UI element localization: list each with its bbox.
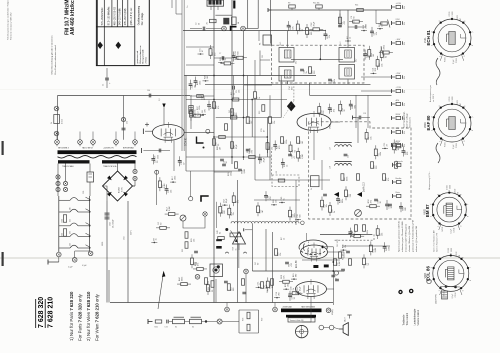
svg-text:1k: 1k (349, 37, 351, 39)
svg-text:LAUTSPR.: LAUTSPR. (435, 293, 438, 304)
svg-text:460–150 V 50–53: 460–150 V 50–53 (114, 6, 116, 25)
svg-text:S2: S2 (192, 327, 194, 329)
svg-text:R/102: R/102 (457, 100, 459, 105)
svg-text:220k: 220k (346, 177, 348, 181)
svg-text:10k: 10k (376, 32, 378, 35)
svg-text:R31: R31 (182, 249, 184, 252)
svg-text:R47 2M: R47 2M (343, 253, 345, 260)
svg-text:100k: 100k (388, 246, 390, 250)
svg-text:Bandbr.: Bandbr. (396, 178, 403, 180)
svg-text:10k: 10k (382, 64, 384, 67)
svg-text:8: 8 (472, 45, 474, 46)
svg-text:Werte in Klammern: FM: Werte in Klammern: FM (436, 233, 439, 252)
svg-text:Tone control: Tone control (406, 312, 409, 325)
svg-text:1: 1 (438, 226, 440, 227)
svg-text:TRAFO/CHAS: TRAFO/CHAS (62, 165, 74, 168)
svg-text:R14: R14 (355, 5, 358, 7)
svg-text:R/105: R/105 (445, 142, 447, 147)
svg-text:V828: V828 (330, 123, 332, 129)
svg-text:6: 6 (465, 21, 467, 22)
svg-text:TAST/GES/CHAS: TAST/GES/CHAS (301, 305, 316, 308)
svg-text:47k: 47k (197, 263, 199, 266)
svg-text:15k: 15k (280, 253, 282, 256)
svg-text:5: 5 (452, 17, 454, 18)
svg-text:ECL 86: ECL 86 (296, 260, 298, 268)
svg-text:47k: 47k (283, 276, 285, 279)
svg-text:C43: C43 (336, 278, 338, 281)
svg-text:C21: C21 (348, 155, 350, 158)
svg-text:2,2: 2,2 (159, 99, 161, 102)
svg-text:NETZ/GEB 3: NETZ/GEB 3 (58, 148, 69, 150)
svg-text:100k: 100k (175, 176, 177, 180)
svg-text:0,9–9: 0,9–9 (198, 112, 200, 117)
svg-text:4: 4 (439, 21, 441, 22)
svg-text:R13: R13 (259, 111, 261, 114)
svg-text:7: 7 (472, 117, 474, 118)
svg-text:8: 8 (470, 280, 472, 281)
svg-text:125: 125 (70, 219, 72, 222)
svg-text:C/100: C/100 (446, 185, 448, 190)
svg-text:10k: 10k (404, 90, 406, 93)
svg-text:C/100: C/100 (448, 248, 450, 253)
svg-text:15k: 15k (345, 245, 347, 248)
svg-text:Normspannungs-: Normspannungs- (403, 111, 406, 128)
svg-text:5k: 5k (225, 58, 227, 60)
svg-text:2: 2 (431, 130, 433, 131)
svg-text:8: 8 (472, 130, 474, 131)
svg-text:100k: 100k (199, 106, 201, 110)
svg-text:C64: C64 (110, 223, 112, 226)
svg-text:1k: 1k (156, 238, 158, 240)
svg-text:100k: 100k (199, 81, 201, 85)
svg-text:2,2M: 2,2M (375, 248, 377, 253)
svg-text:1: 1 (439, 141, 441, 142)
svg-text:1M: 1M (302, 141, 304, 144)
svg-text:5k: 5k (311, 188, 313, 190)
svg-text:235–162 V (FM): 235–162 V (FM) (125, 8, 127, 25)
svg-text:Volume control: Volume control (417, 310, 420, 326)
svg-text:Schaltungsänderungen vorbehalt: Schaltungsänderungen vorbehalten! Subjec… (7, 0, 10, 40)
svg-text:10k: 10k (404, 6, 406, 9)
svg-text:160: 160 (70, 231, 72, 234)
svg-text:Ratio: Ratio (396, 191, 400, 194)
svg-text:1k: 1k (355, 231, 357, 233)
svg-text:2,2M: 2,2M (339, 261, 341, 266)
svg-text:R79: R79 (262, 318, 264, 321)
svg-text:For Wien 7 628 210 only: For Wien 7 628 210 only (95, 293, 100, 341)
svg-text:9: 9 (464, 141, 466, 142)
svg-text:V828: V828 (424, 122, 427, 128)
svg-text:C18: C18 (363, 113, 366, 115)
svg-text:C63: C63 (124, 237, 126, 240)
svg-text:R36: R36 (233, 247, 235, 250)
svg-text:Tonblende: Tonblende (404, 314, 406, 325)
svg-text:1M: 1M (398, 147, 400, 150)
svg-text:243–107 V (AM): 243–107 V (AM) (119, 8, 122, 25)
svg-text:9: 9 (464, 56, 466, 57)
svg-text:5k: 5k (219, 232, 221, 234)
svg-text:measured with VTVM against: measured with VTVM against (405, 224, 408, 252)
svg-text:1k: 1k (259, 97, 261, 99)
svg-text:10k: 10k (371, 137, 373, 140)
svg-text:ECH 81: ECH 81 (185, 137, 188, 146)
svg-text:3: 3 (431, 32, 433, 33)
svg-text:10k: 10k (404, 76, 406, 79)
svg-text:Osc. voltage: Osc. voltage (141, 12, 144, 25)
svg-text:30: 30 (199, 23, 201, 25)
svg-text:Spannungen gemessen mit Röhr.: Spannungen gemessen mit Röhr. (398, 220, 401, 252)
svg-text:2,2M: 2,2M (244, 169, 246, 174)
svg-text:1k: 1k (283, 238, 285, 240)
svg-text:10,7: 10,7 (356, 59, 358, 62)
svg-text:4: 4 (439, 106, 441, 107)
svg-text:C8: C8 (155, 156, 157, 158)
svg-text:7: 7 (470, 267, 472, 268)
svg-text:voltmeter gegen Chassis 10 MΩ: voltmeter gegen Chassis 10 MΩ (401, 221, 404, 252)
svg-text:10k: 10k (404, 103, 406, 106)
svg-text:100k: 100k (380, 152, 382, 156)
svg-text:220k: 220k (181, 277, 183, 281)
svg-text:10k: 10k (382, 233, 384, 236)
svg-text:25μF: 25μF (264, 157, 266, 162)
svg-text:3: 3 (431, 204, 433, 205)
svg-text:6: 6 (463, 257, 465, 258)
svg-text:R11 30k: R11 30k (313, 3, 320, 5)
svg-text:R/102: R/102 (457, 15, 459, 20)
svg-text:270 kΩ: 270 kΩ (145, 56, 147, 63)
svg-text:0,5 A: 0,5 A (61, 119, 64, 124)
svg-text:TAST./ NETZ: TAST./ NETZ (82, 147, 94, 150)
svg-text:S1: S1 (175, 327, 177, 329)
svg-text:L4: L4 (238, 22, 240, 24)
svg-text:C61: C61 (83, 191, 85, 194)
svg-text:2,2M: 2,2M (169, 206, 171, 211)
svg-text:1500: 1500 (62, 233, 64, 237)
svg-text:L17: L17 (330, 147, 332, 150)
svg-text:10k: 10k (230, 173, 232, 176)
svg-text:FM 10,7 MHz/Mc: FM 10,7 MHz/Mc (65, 0, 71, 35)
svg-text:9: 9 (460, 226, 462, 227)
svg-text:5k: 5k (306, 71, 308, 73)
svg-text:LS(M): LS(M) (332, 309, 334, 315)
svg-text:AM 460 kHz/kc: AM 460 kHz/kc (70, 0, 76, 35)
svg-text:−0,5V: −0,5V (396, 3, 402, 5)
svg-text:C 75: C 75 (122, 187, 124, 192)
svg-text:87,5–100 MHz/Mc: 87,5–100 MHz/Mc (108, 6, 110, 25)
svg-text:5000: 5000 (452, 12, 454, 16)
svg-text:10k: 10k (404, 22, 406, 25)
svg-text:25μF: 25μF (299, 286, 301, 291)
svg-text:47k: 47k (292, 26, 294, 29)
svg-text:R/102: R/102 (454, 189, 456, 194)
svg-text:Printed in Germany VDR 4/62: Printed in Germany VDR 4/62 (10, 12, 13, 40)
svg-text:150k: 150k (367, 230, 369, 234)
svg-text:2,2M: 2,2M (164, 183, 166, 188)
svg-text:2: 2 (431, 280, 433, 281)
svg-text:4: 4 (438, 194, 440, 195)
svg-text:R41: R41 (155, 327, 158, 329)
svg-text:For Paris 7 628 320 only: For Paris 7 628 320 only (78, 293, 83, 341)
svg-text:C/104: C/104 (455, 293, 457, 298)
svg-text:25μF: 25μF (226, 198, 228, 203)
svg-text:2,2M: 2,2M (302, 154, 304, 159)
svg-text:5000: 5000 (102, 242, 104, 246)
svg-text:8: 8 (468, 216, 470, 217)
svg-text:V101: V101 (424, 37, 427, 43)
svg-text:−25V: −25V (396, 73, 401, 75)
svg-text:20/GES-AB: 20/GES-AB (283, 305, 293, 308)
svg-text:C2: C2 (196, 23, 198, 25)
svg-text:2: 2 (431, 45, 433, 46)
svg-text:25μF: 25μF (236, 144, 238, 149)
svg-text:Lautstärkeregler: Lautstärkeregler (414, 308, 417, 325)
svg-text:1M: 1M (373, 54, 375, 57)
svg-text:1: 1 (439, 56, 441, 57)
svg-text:10k: 10k (288, 284, 290, 287)
svg-text:9: 9 (462, 290, 464, 291)
svg-text:220k: 220k (334, 79, 336, 83)
svg-text:L21: L21 (276, 171, 278, 174)
svg-text:values in ( ) for position FM: values in ( ) for position FM (415, 226, 418, 252)
svg-text:1500: 1500 (62, 219, 64, 223)
svg-text:Messpunkt with: Messpunkt with (142, 49, 145, 63)
svg-text:15k: 15k (252, 121, 254, 124)
svg-text:−2,5V: −2,5V (396, 87, 402, 89)
svg-text:C/100: C/100 (449, 97, 451, 102)
svg-text:15k: 15k (233, 212, 235, 215)
svg-text:5: 5 (449, 190, 451, 191)
svg-text:10k: 10k (193, 239, 195, 242)
svg-text:gemessen mit: gemessen mit (136, 50, 139, 63)
svg-text:10k: 10k (404, 42, 406, 45)
svg-text:3: 3 (431, 117, 433, 118)
svg-text:2xAA 113: 2xAA 113 (363, 182, 366, 192)
svg-text:ca. 250 V: ca. 250 V (433, 93, 435, 102)
svg-text:C15: C15 (262, 55, 264, 58)
svg-text:10k: 10k (326, 204, 328, 207)
svg-text:C/104: C/104 (456, 58, 458, 63)
svg-text:10k: 10k (404, 144, 406, 147)
svg-text:110: 110 (70, 207, 72, 210)
svg-text:5k: 5k (334, 211, 336, 213)
svg-text:220k: 220k (383, 45, 385, 49)
svg-text:1M: 1M (262, 210, 264, 213)
svg-text:5: 5 (451, 253, 453, 254)
svg-text:5k: 5k (293, 288, 295, 290)
svg-text:R9: R9 (288, 3, 290, 5)
svg-text:7 628 210: 7 628 210 (47, 297, 54, 328)
svg-text:100k: 100k (381, 22, 383, 26)
svg-text:350 V: 350 V (131, 229, 133, 235)
svg-text:50+300μF: 50+300μF (113, 219, 115, 228)
svg-text:7: 7 (468, 204, 470, 205)
svg-text:6: 6 (461, 194, 463, 195)
svg-text:B/H/GER/AB: B/H/GER/AB (123, 147, 134, 150)
svg-text:10k: 10k (238, 90, 240, 93)
svg-text:TRAFO/CH 50 A: TRAFO/CH 50 A (103, 165, 117, 168)
svg-text:R/102: R/102 (456, 252, 458, 257)
svg-text:47k: 47k (334, 109, 336, 112)
svg-text:B 250: B 250 (119, 187, 121, 193)
svg-text:1k: 1k (213, 107, 215, 109)
svg-text:1M: 1M (272, 285, 274, 288)
svg-text:V802: V802 (424, 208, 427, 214)
svg-text:C72: C72 (165, 327, 168, 329)
svg-text:C65: C65 (127, 121, 129, 124)
svg-text:Für: Für (187, 5, 189, 8)
svg-text:R/105: R/105 (443, 292, 445, 297)
svg-text:1M: 1M (207, 76, 209, 79)
svg-text:−10V: −10V (396, 39, 401, 41)
svg-text:1k: 1k (287, 165, 289, 167)
svg-text:5000: 5000 (451, 248, 453, 252)
svg-text:Röhrenvoltmeter an: Röhrenvoltmeter an (139, 46, 142, 64)
svg-text:5000: 5000 (158, 155, 160, 159)
svg-text:(228–10,8 V) osc: (228–10,8 V) osc (131, 7, 133, 25)
svg-text:15k: 15k (272, 147, 274, 150)
svg-text:BV 1: BV 1 (280, 42, 282, 46)
svg-text:7 628 320: 7 628 320 (38, 297, 45, 328)
svg-text:C/100: C/100 (449, 12, 451, 17)
svg-text:L18: L18 (330, 166, 332, 169)
svg-text:5: 5 (452, 102, 454, 103)
svg-text:3: 3 (431, 267, 433, 268)
svg-text:C/104: C/104 (456, 143, 458, 148)
svg-text:BV 2: BV 2 (340, 42, 342, 46)
svg-text:515–1629 kHz/kc: 515–1629 kHz/kc (102, 7, 104, 26)
svg-text:1: 1 (439, 290, 441, 291)
svg-text:4: 4 (438, 257, 440, 258)
svg-text:7: 7 (472, 32, 474, 33)
svg-text:2) Nur für Wien 7 628 210: 2) Nur für Wien 7 628 210 (86, 291, 91, 341)
svg-text:chassis. Werte in ( ) bei FM: chassis. Werte in ( ) bei FM (408, 226, 411, 252)
svg-text:2: 2 (431, 216, 433, 217)
svg-text:10,7: 10,7 (296, 61, 298, 64)
svg-text:V804: V804 (424, 272, 427, 278)
svg-text:220k: 220k (294, 213, 296, 217)
svg-text:Ohne Bezeichnung gilt oder 2 e: Ohne Bezeichnung gilt oder 2 einsetzen (51, 35, 54, 75)
svg-text:C7: C7 (219, 53, 221, 55)
svg-text:2,2M: 2,2M (365, 24, 367, 29)
svg-text:47k: 47k (218, 106, 220, 109)
svg-text:205V: 205V (396, 114, 401, 116)
svg-text:Anodenspannungen: Anodenspannungen (429, 85, 432, 102)
svg-text:15k: 15k (194, 109, 196, 112)
svg-text:10k: 10k (170, 190, 172, 193)
svg-text:R78: R78 (243, 318, 245, 321)
svg-text:220: 220 (70, 243, 72, 246)
svg-text:100k: 100k (286, 140, 288, 144)
svg-text:Heizspannung 6,3 V∼: Heizspannung 6,3 V∼ (429, 171, 431, 190)
svg-text:10k: 10k (404, 131, 406, 134)
svg-text:5k: 5k (386, 56, 388, 58)
svg-text:220k: 220k (342, 199, 344, 203)
svg-text:R in Ω unless otherwise noted: R in Ω unless otherwise noted (54, 45, 57, 75)
svg-text:Oszillatorspannung: Oszillatorspannung (138, 5, 141, 25)
svg-text:2,5V: 2,5V (396, 19, 401, 21)
svg-text:C60: C60 (147, 90, 150, 92)
svg-text:10k: 10k (274, 121, 276, 124)
svg-text:47k: 47k (370, 200, 372, 203)
svg-text:47k: 47k (388, 178, 390, 181)
svg-text:Normal voltage: Normal voltage (406, 113, 409, 128)
svg-text:1M: 1M (219, 147, 221, 150)
svg-text:R/105: R/105 (442, 227, 444, 232)
svg-text:5000: 5000 (452, 97, 454, 101)
svg-text:15k: 15k (329, 35, 331, 38)
svg-text:Werte ohne Klammern: AM: Werte ohne Klammern: AM (433, 230, 436, 252)
svg-text:5000: 5000 (450, 185, 452, 189)
svg-text:+20/GES./TV: +20/GES./TV (103, 148, 115, 150)
svg-text:R/105: R/105 (445, 57, 447, 62)
svg-text:25μF: 25μF (314, 21, 316, 26)
svg-text:Tonspule: Tonspule (396, 161, 403, 163)
svg-text:Höchstwerte: Höchstwerte (409, 116, 412, 128)
svg-text:C/104: C/104 (454, 228, 456, 233)
svg-text:6: 6 (465, 106, 467, 107)
svg-text:gemessen in Schalterstellung F: gemessen in Schalterstellung FM (412, 220, 415, 252)
svg-text:C1: C1 (103, 84, 105, 86)
svg-text:Trennst.-Güte 5Ω: Trennst.-Güte 5Ω (290, 319, 305, 322)
svg-text:1) Nur für Paris 7 628 320: 1) Nur für Paris 7 628 320 (69, 291, 74, 341)
